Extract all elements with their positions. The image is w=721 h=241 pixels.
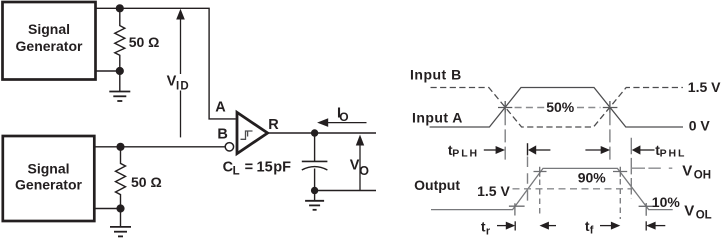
wire: gen1 bottom output <box>96 70 120 72</box>
svg-text:A: A <box>215 100 226 116</box>
label tPHL <box>655 142 686 159</box>
capacitor CL <box>302 133 328 191</box>
svg-text:O: O <box>339 110 348 124</box>
svg-text:Output: Output <box>414 177 460 193</box>
signal generator box 2 <box>3 136 95 221</box>
svg-text:1.5 V: 1.5 V <box>688 79 721 95</box>
node: junction dot bottom of R2 <box>116 204 124 212</box>
10% tick on rising edge <box>509 203 525 215</box>
label tf <box>585 218 594 237</box>
svg-text:pF: pF <box>273 160 291 176</box>
wire: U1 output rail to load <box>268 132 376 134</box>
tPLH arrow (right, pointing left) with boundary tick <box>528 143 551 155</box>
VID measurement arrow <box>176 9 185 138</box>
label tPLH <box>448 142 479 159</box>
ground (below R1) <box>109 92 130 102</box>
VOH dash-dot reference <box>631 167 672 169</box>
svg-text:0 V: 0 V <box>689 118 711 134</box>
1.5V reference dashed line (output) <box>513 188 632 190</box>
ground (load return) <box>305 191 324 210</box>
svg-text:90%: 90% <box>578 170 607 186</box>
waveform Input B (dashed) <box>431 88 683 128</box>
svg-text:Input B: Input B <box>410 67 462 83</box>
svg-text:OH: OH <box>694 169 711 181</box>
svg-text:V: V <box>682 162 692 179</box>
measurement vertical below rise 90% <box>539 180 541 218</box>
node: junction dot at capacitor bottom <box>311 187 318 194</box>
label VID <box>166 74 192 93</box>
svg-text:O: O <box>359 164 369 178</box>
tr arrow (left, pointing right) with tip tick <box>497 221 515 230</box>
svg-text:=: = <box>245 160 253 176</box>
label IO <box>337 105 349 124</box>
svg-text:OL: OL <box>696 209 712 221</box>
tr arrow (right, pointing left) <box>540 222 557 230</box>
50% reference dashes right <box>577 107 601 109</box>
crossing tick marks at second input crossing <box>603 101 618 113</box>
10% tick on falling edge <box>639 203 654 216</box>
resistor R2 50 ohm <box>116 147 126 227</box>
crossing tick marks at first input crossing <box>498 101 512 113</box>
50% reference dashes left <box>515 107 545 109</box>
IO current arrow <box>317 118 366 127</box>
waveform Input A (solid) <box>430 88 683 128</box>
wire: gen2 top output to node B (input B rail) <box>94 146 225 148</box>
svg-text:R: R <box>268 117 279 133</box>
svg-text:ID: ID <box>176 80 190 92</box>
measurement vertical below first crossing <box>504 112 506 159</box>
svg-text:Generator: Generator <box>16 38 83 54</box>
svg-text:Signal: Signal <box>28 21 70 37</box>
svg-text:L: L <box>233 166 240 178</box>
measurement vertical below fall 90% <box>619 179 621 219</box>
svg-text:PHL: PHL <box>660 147 687 159</box>
VO measurement arrow <box>356 135 364 191</box>
ground (below R2) <box>110 227 131 237</box>
tPHL arrow (right, pointing left) <box>632 145 655 154</box>
measurement vertical below second crossing <box>609 112 611 159</box>
svg-text:10%: 10% <box>652 194 681 210</box>
label VOL <box>684 202 711 221</box>
svg-text:Generator: Generator <box>15 177 82 193</box>
measurement vertical at output rise 1.5V crossing <box>527 157 529 202</box>
tPLH arrow (left, pointing right) <box>484 146 505 154</box>
svg-text:50 Ω: 50 Ω <box>129 34 160 50</box>
svg-text:V: V <box>684 202 694 219</box>
tPHL arrow (left, pointing right) <box>585 146 610 154</box>
wire: bottom return rail <box>315 190 376 192</box>
measurement vertical at output fall 1.5V crossing <box>630 138 632 199</box>
resistor R1 50 ohm <box>115 8 125 91</box>
svg-text:Input A: Input A <box>412 110 463 126</box>
svg-text:Signal: Signal <box>27 161 69 177</box>
hysteresis symbol inside U1 <box>241 131 253 139</box>
label VOH <box>682 162 711 181</box>
node: junction dot bottom of R1 <box>116 67 124 75</box>
label CL = 15 pF <box>223 160 292 178</box>
wire: gen2 bottom output <box>94 208 121 210</box>
svg-text:15: 15 <box>257 160 273 176</box>
label VO <box>350 158 369 178</box>
tf arrow (right, pointing left) with tip tick <box>646 221 665 230</box>
node: junction dot top of R1 <box>116 4 124 12</box>
svg-text:r: r <box>486 226 491 238</box>
svg-text:B: B <box>217 126 227 142</box>
inverting input bubble on B <box>225 143 233 151</box>
svg-text:50%: 50% <box>546 99 575 115</box>
op-amp U1 receiver triangle <box>237 112 268 153</box>
90% tick on rising edge <box>534 167 547 177</box>
svg-text:1.5 V: 1.5 V <box>477 183 510 199</box>
90% tick on falling edge <box>613 167 627 177</box>
label tr <box>481 218 491 237</box>
svg-text:f: f <box>590 225 594 237</box>
wire: gen1 top output to node A (top rail) <box>96 8 236 119</box>
node: junction dot top of R2 <box>116 143 124 151</box>
output waveform <box>431 168 673 209</box>
signal generator box 1 <box>3 2 96 80</box>
tf arrow (left, pointing right) <box>600 222 620 230</box>
svg-text:50 Ω: 50 Ω <box>131 174 162 190</box>
node: junction dot at capacitor top <box>311 129 318 136</box>
svg-text:PLH: PLH <box>452 147 479 159</box>
